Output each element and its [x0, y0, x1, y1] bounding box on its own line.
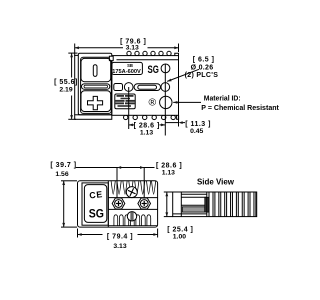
svg-text:1.00: 1.00: [173, 234, 186, 241]
middle row circle hole left: [124, 83, 133, 92]
big bolt hole circle: [160, 96, 172, 108]
svg-text:[ 28.6 ]: [ 28.6 ]: [156, 162, 182, 169]
middle row small square hole: [114, 84, 123, 91]
svg-text:SB: SB: [127, 63, 133, 68]
svg-text:[ 6.5 ]: [ 6.5 ]: [193, 56, 215, 63]
svg-text:1.56: 1.56: [55, 171, 68, 178]
hex bolt right: [138, 198, 151, 209]
top view lower fin slots: [108, 215, 157, 226]
tiny warning label box: [115, 94, 135, 109]
annotation material id leader: [173, 93, 279, 112]
svg-text:CE: CE: [89, 189, 104, 200]
svg-text:[ 79.4 ]: [ 79.4 ]: [107, 233, 133, 240]
top view label pad: [82, 181, 108, 227]
top view body: [78, 181, 158, 227]
side view body: [173, 192, 257, 217]
dimension [28.6] 1.13 and [11.3] 0.45 under front view: [129, 65, 211, 137]
svg-text:1.13: 1.13: [140, 130, 153, 137]
dimension [55.6] 2.19 left of front view: [54, 53, 78, 119]
svg-text:P = Chemical Resistant: P = Chemical Resistant: [201, 103, 279, 112]
front view body face plate: [112, 53, 179, 119]
svg-text:®: ®: [148, 98, 156, 109]
middle row pill slot: [134, 84, 160, 91]
side view ribs: [213, 192, 256, 217]
svg-text:2.19: 2.19: [59, 86, 72, 93]
svg-text:0.45: 0.45: [190, 128, 203, 135]
svg-text:[ 39.7 ]: [ 39.7 ]: [50, 162, 76, 169]
top view upper fin slots: [111, 181, 156, 194]
svg-text:1.13: 1.13: [162, 169, 175, 176]
hex bolt left: [112, 198, 125, 209]
svg-text:[ 28.6 ]: [ 28.6 ]: [134, 122, 160, 129]
svg-text:SG: SG: [148, 64, 159, 76]
front view left rail: [75, 55, 79, 114]
front view bottom edge scallops: [124, 115, 176, 119]
dimension [79.6] 3.13 top of front view: [75, 38, 179, 56]
svg-text:[ 11.3 ]: [ 11.3 ]: [185, 121, 211, 128]
top view cross screw upper: [126, 187, 137, 198]
top view bolt channel: [108, 198, 157, 210]
dimension [28.6] 1.13 above top view: [76, 162, 182, 197]
svg-text:(2) PLC'S: (2) PLC'S: [185, 72, 219, 79]
svg-text:Ø 0.26: Ø 0.26: [191, 65, 214, 72]
label SB 175A-600V: [112, 62, 142, 75]
dimension [25.4] 1.00 left of side view: [164, 192, 194, 241]
middle row circle hole right: [161, 83, 170, 92]
svg-text:SG: SG: [89, 208, 104, 220]
front view bottom rail: [75, 115, 112, 120]
svg-text:3.13: 3.13: [113, 243, 126, 250]
svg-text:175A-600V: 175A-600V: [112, 69, 141, 75]
front view top edge scallops: [127, 51, 171, 55]
front view left contact block: [78, 53, 113, 115]
front view top contact cavity with slot: [81, 58, 111, 81]
top view slot screw lower: [127, 212, 136, 221]
dimension [39.7] 1.56 left of top view: [50, 162, 77, 227]
svg-text:[ 25.4 ]: [ 25.4 ]: [167, 226, 193, 233]
svg-text:Material ID:: Material ID:: [204, 93, 241, 102]
svg-text:3.13: 3.13: [126, 44, 139, 51]
front view middle latch slot: [82, 84, 110, 89]
svg-text:Side View: Side View: [197, 177, 234, 187]
dimension [79.4] 3.13 below top view: [78, 229, 158, 251]
top right bolt hole circle: [161, 64, 170, 73]
front view bottom contact cavity with plus mark: [81, 91, 111, 112]
annotation diameter 0.26 leader: [167, 56, 218, 81]
